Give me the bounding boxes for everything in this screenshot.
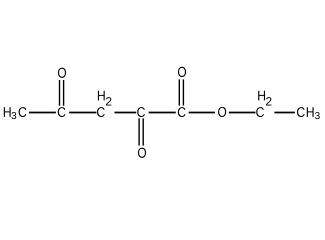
bond C2-C1 bbox=[149, 112, 176, 114]
oxygen O (ester bridge) bbox=[218, 107, 226, 117]
methyl group H3C (C5) bbox=[4, 107, 27, 119]
carbon C1 (ester carbonyl carbon) bbox=[178, 107, 186, 117]
methylene group CH2 (ethyl) bbox=[256, 91, 271, 117]
oxygen O (ketone on C2) bbox=[138, 148, 146, 158]
bond CH2-CH3 ethyl bbox=[274, 112, 294, 114]
double bond C1=O bbox=[179, 79, 183, 105]
methyl group CH3 (ethyl terminus) bbox=[297, 107, 320, 119]
double bond C2=O bbox=[139, 118, 143, 145]
carbon C4 (ketone carbon) bbox=[58, 107, 66, 117]
carbon C2 (ketone carbon) bbox=[137, 107, 145, 117]
double bond C4=O bbox=[60, 80, 64, 106]
oxygen O (ketone on C4) bbox=[58, 68, 66, 78]
bond C5-C4 bbox=[29, 112, 56, 114]
oxygen O (carbonyl on C1) bbox=[178, 67, 186, 77]
bond C3-C2 bbox=[115, 112, 137, 114]
methylene group CH2 (C3) bbox=[97, 91, 111, 117]
bond C1-O ester bbox=[189, 112, 215, 114]
bond C4-C3 bbox=[69, 112, 96, 114]
bond O-CH2 bbox=[229, 112, 256, 114]
